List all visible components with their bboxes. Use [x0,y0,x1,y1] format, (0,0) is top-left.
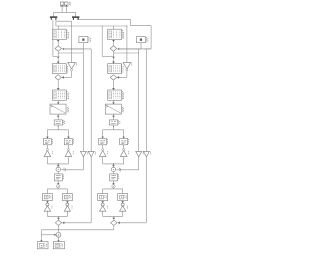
wire L: box3 to switch box4 [57,100,59,104]
small block L5 [54,120,62,125]
label next to block R5 [118,120,120,124]
wire L: box6a to triangle [46,145,48,151]
wire: rail joins diamond R3 [118,222,147,224]
wire L: diamond1 output right [62,48,84,50]
wire: far rail joins diamond R1 output line [144,48,151,50]
wire L: drop to triangle L1 [71,49,73,63]
output triangle R6b [120,150,127,156]
wire R: triangle1 out to diamond2 [126,71,128,78]
right bus bar [72,16,79,17]
label next to block L4 [66,107,68,112]
wire L: box7a to indicator [46,201,48,203]
wire R: diamond1 output right [117,48,139,50]
wire L: triangle1 out to diamond2 [71,71,73,78]
wire R: triangles rejoin [102,157,104,164]
label next to control box L [62,174,64,179]
arrow into diamond R1 right vertex [118,48,119,50]
label next to block R2 [121,64,123,72]
output box L7b [62,194,72,201]
output box L7a [42,194,52,201]
triangle component R1 [123,62,131,69]
diamond L2 [55,75,61,80]
snubber box L (small box with square) [79,37,88,43]
wire: bottom bus connecting both columns [59,229,114,231]
label next to block R4 [122,107,124,112]
wire: drop into block L1 top [58,26,60,29]
bottom box A [37,242,48,249]
label next to sense circle L [63,168,65,171]
label next to block L2 [65,64,67,72]
wire R: diamond2 to box3 [113,80,115,90]
control box L [54,174,62,181]
split junction circle L [57,185,60,188]
output box R7b [118,194,128,201]
label next to triangle R6b [128,151,130,154]
label next to indicator L7b [71,206,73,209]
rectifier diamond L1 [55,46,61,51]
wire R: drop to triangle R1 [126,49,128,63]
switch block L4 (box with diagonal) [50,104,66,114]
wire: diamond L3 into meter circle top [58,230,60,232]
wire R: box3 to switch box4 [113,100,115,104]
label next to sense circle R [118,168,120,171]
wire: meter circle to bottom box B [58,237,60,241]
wire L: circle to control box [57,172,59,174]
wire: rail joins diamond L3 [63,222,92,224]
label next to triangle L6a [51,151,53,154]
wire L: diamond3 down to bottom bus [58,226,60,230]
wire L: indicators converge [46,211,48,217]
wire L: box7b to indicator [66,201,68,203]
output triangle L6b [65,150,72,156]
wire: plug horizontal [54,11,76,13]
wire L: box6b to triangle [67,145,69,151]
label next to snubber box L [88,37,90,42]
indicator triangle-circle R7a [101,203,104,206]
label next to block L1 [66,30,68,38]
block R1 input filter box [108,29,122,39]
wire: bus line at y26 across to right column [55,21,57,26]
label next to box R6b [128,139,130,144]
snubber box R (small box with square) [137,37,146,43]
wire R: box6b to triangle [123,145,125,151]
left bus bar [50,16,57,17]
small block R5 [110,120,118,125]
wire R: box5 output split [113,125,115,130]
indicator triangle-circle R7b [121,203,124,206]
wire R: box6a to triangle [102,145,104,151]
inline triangle on rail x=146.4 [143,151,149,156]
block L2 box [52,64,66,74]
label 16 next to plug [68,2,70,5]
output triangle R6a [99,150,106,156]
rectifier diamond R1 [110,46,116,51]
label next to box R6a [107,139,109,144]
output triangle L6a [44,150,51,156]
label next to block L5 [62,120,64,124]
sub box R6b [120,139,128,145]
label next to control box R [118,174,120,179]
wire R: diamond3 down to bottom bus [113,226,115,230]
block L1 input filter box [52,29,66,39]
inline triangle on rail x=91.2 [88,151,94,156]
wire R: snubber box down [140,43,142,49]
wire: drop to left bus bar [53,12,55,16]
split junction circle R [112,185,115,188]
output box R7a [98,194,108,201]
wire R: box7a to indicator [102,201,104,203]
wire: drop to right bus bar [75,12,77,16]
wire R: diamond1 down to box2 [113,51,115,63]
label next to indicator R7b [126,206,128,209]
label next to snubber box R [146,37,148,42]
output diamond L3 [55,220,61,225]
wire R: box1 to rectifier diamond [113,40,115,46]
wire: drop to right column left rail [101,26,103,56]
inline triangle on rail x=83.4 [80,151,86,156]
label next to triangle L1 [76,63,78,66]
wire: plug prongs down [61,6,63,12]
wire: bus line at y21.2 to triangle L1 feed [55,20,57,21]
label next to box L6b [72,139,74,144]
wire R: circle to control box [113,172,115,174]
label next to block L3 [66,91,68,99]
output diamond R3 [111,220,117,225]
diamond R2 [110,75,116,80]
wire L: control box split to output boxes [57,181,59,185]
indicator triangle-circle L7b [66,203,69,206]
wire: branch into meter circle [41,234,54,236]
switch block R4 (box with diagonal) [105,104,121,114]
wire: drop into block R1 top [113,26,115,29]
wire: drop to triangle R1 feed [126,26,128,49]
wire: left rail down beside block L1 [52,20,54,57]
wire R: control box split to output boxes [113,181,115,185]
block L3 box [52,90,66,100]
wire L: snubber box down [82,43,84,49]
label next to triangle L6b [72,151,74,154]
wire L: diamond1 down to box2 [57,51,59,63]
AC plug housing [60,2,63,6]
label next to box L6a [51,139,53,144]
label next to block R3 [121,91,123,99]
sense circle L [56,167,60,171]
wire L: box1 to rectifier diamond [57,40,59,46]
meter circle [56,232,61,237]
wire L: box5 output split [57,125,59,130]
sub box L6b [64,139,72,145]
sub box R6a [99,139,107,145]
wire L: diamond2 to box3 [57,80,59,90]
rail: snubber R line down to sense circle R [138,49,140,170]
rail: main L tap down to output diamond L3 [58,52,83,54]
wire R: indicators converge [102,211,104,217]
wire: right bus zigzag to right column far rail [78,18,80,20]
triangle component L1 [68,62,76,69]
wire L: triangles rejoin [46,157,48,164]
control box R [110,174,118,181]
wire R: box7b to indicator [122,201,124,203]
block R3 box [108,90,122,100]
bottom box B [53,242,64,249]
rail: snubber L line down to sense circle L [82,49,84,170]
wire L: box4 to box5 [57,114,59,120]
block R2 box [108,64,122,74]
label next to block R1 [121,30,123,38]
indicator triangle-circle L7a [46,203,49,206]
sense circle R [111,167,115,171]
sub box L6a [43,139,51,145]
label next to triangle R6a [107,151,109,154]
wire: bottom bus to left branch [41,229,58,231]
arrow into diamond L1 right vertex [63,48,64,50]
inline triangle on rail x=138.7 [136,151,142,156]
label next to indicator R7a [106,206,108,209]
rail: main R tap down to output diamond R3 [114,52,139,54]
label next to indicator L7a [51,206,53,209]
wire R: box4 to box5 [113,114,115,120]
label next to triangle R1 [131,63,133,66]
